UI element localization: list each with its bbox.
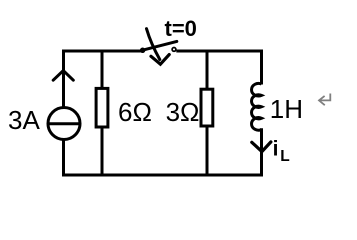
wire 6-ohm branch lower [101, 128, 104, 175]
wire 3-ohm branch lower [206, 126, 209, 175]
wire 6-ohm branch upper [101, 51, 104, 90]
svg-text:6Ω: 6Ω [118, 97, 152, 127]
svg-text:t=0: t=0 [165, 16, 197, 41]
current source direction arrow (up) [53, 71, 73, 81]
switch SW1 motion arrow head [151, 55, 169, 65]
wire bottom (right branch lower + bottom wire + left branch lower) [64, 128, 262, 175]
current source I1 circle [48, 108, 80, 140]
resistor R1 body [96, 88, 108, 127]
switch SW1 right terminal [172, 48, 176, 52]
wire top-left corner (left branch upper + top wire left segment) [64, 51, 141, 107]
paragraph return mark (grey) [319, 94, 330, 106]
inductor current arrow head (down) [252, 142, 271, 152]
wire 3-ohm branch upper [206, 51, 209, 90]
resistor R2 body [201, 89, 213, 126]
svg-text:3A: 3A [8, 105, 40, 135]
svg-text:L: L [280, 148, 289, 165]
inductor L1 coil [252, 83, 262, 130]
switch SW1 motion arrow shaft [147, 29, 160, 60]
switch SW1 left terminal [141, 48, 145, 52]
svg-text:1H: 1H [270, 94, 303, 124]
svg-text:i: i [273, 138, 279, 161]
svg-text:3Ω: 3Ω [166, 97, 200, 127]
switch SW1 blade [143, 41, 177, 50]
current source I1 bar [47, 122, 81, 125]
wire top-right (top wire right segment + right branch upper) [176, 51, 261, 85]
